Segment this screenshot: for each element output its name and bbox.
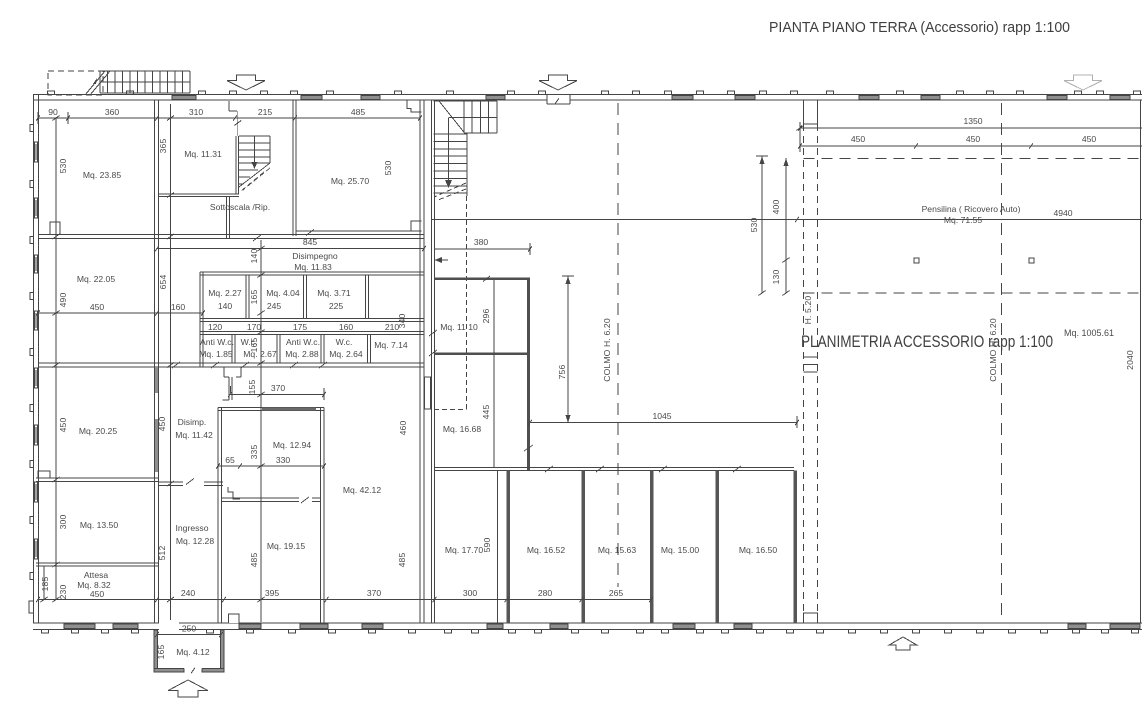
svg-text:170: 170 (247, 322, 262, 332)
svg-text:300: 300 (58, 515, 68, 530)
svg-text:225: 225 (329, 301, 344, 311)
svg-text:Mq. 19.15: Mq. 19.15 (267, 541, 305, 551)
svg-text:Anti W.c.: Anti W.c. (200, 337, 234, 347)
svg-text:310: 310 (189, 107, 204, 117)
svg-text:90: 90 (48, 107, 58, 117)
svg-text:450: 450 (90, 589, 105, 599)
svg-text:230: 230 (58, 585, 68, 600)
svg-text:165: 165 (249, 290, 259, 305)
svg-text:Sottoscala /Rip.: Sottoscala /Rip. (210, 202, 270, 212)
svg-text:Mq. 11.31: Mq. 11.31 (184, 149, 222, 159)
svg-text:380: 380 (474, 237, 489, 247)
svg-text:Disimpegno: Disimpegno (292, 251, 338, 261)
svg-text:Mq. 2.67: Mq. 2.67 (243, 349, 277, 359)
svg-text:Disimp.: Disimp. (178, 417, 207, 427)
svg-text:530: 530 (383, 161, 393, 176)
svg-text:395: 395 (265, 588, 280, 598)
svg-text:756: 756 (557, 365, 567, 380)
svg-text:2040: 2040 (1125, 350, 1135, 370)
svg-text:120: 120 (208, 322, 223, 332)
svg-text:280: 280 (538, 588, 553, 598)
svg-text:Anti W.c.: Anti W.c. (286, 337, 320, 347)
svg-text:Mq. 11.83: Mq. 11.83 (294, 262, 332, 272)
svg-text:530: 530 (749, 218, 759, 233)
svg-text:450: 450 (1082, 134, 1097, 144)
svg-text:4940: 4940 (1053, 208, 1072, 218)
svg-text:Mq. 15.00: Mq. 15.00 (661, 545, 699, 555)
svg-text:240: 240 (181, 588, 196, 598)
svg-text:Attesa: Attesa (84, 570, 109, 580)
svg-text:Mq. 16.52: Mq. 16.52 (527, 545, 565, 555)
svg-text:330: 330 (276, 455, 291, 465)
svg-text:845: 845 (303, 237, 318, 247)
svg-text:450: 450 (851, 134, 866, 144)
svg-text:Mq. 71.55: Mq. 71.55 (944, 215, 982, 225)
svg-text:Mq. 2.88: Mq. 2.88 (285, 349, 319, 359)
svg-text:Mq. 1.85: Mq. 1.85 (199, 349, 233, 359)
svg-text:Pensilina ( Ricovero Auto): Pensilina ( Ricovero Auto) (922, 204, 1021, 214)
svg-text:450: 450 (157, 417, 167, 432)
svg-text:360: 360 (105, 107, 120, 117)
svg-text:Mq. 11.42: Mq. 11.42 (175, 430, 213, 440)
svg-text:Mq. 16.68: Mq. 16.68 (443, 424, 481, 434)
svg-text:445: 445 (481, 405, 491, 420)
svg-text:Mq. 16.50: Mq. 16.50 (739, 545, 777, 555)
svg-text:450: 450 (966, 134, 981, 144)
svg-text:250: 250 (182, 624, 197, 634)
svg-text:W.c.: W.c. (336, 337, 353, 347)
svg-text:Mq. 8.32: Mq. 8.32 (77, 580, 111, 590)
svg-text:450: 450 (90, 302, 105, 312)
svg-text:COLMO H. 6.20: COLMO H. 6.20 (602, 318, 612, 382)
svg-text:140: 140 (249, 249, 259, 264)
svg-text:155: 155 (247, 380, 257, 395)
svg-text:Mq. 1005.61: Mq. 1005.61 (1064, 328, 1114, 338)
svg-text:Mq. 20.25: Mq. 20.25 (79, 426, 117, 436)
svg-text:65: 65 (225, 455, 235, 465)
svg-text:140: 140 (218, 301, 233, 311)
svg-text:370: 370 (271, 383, 286, 393)
svg-text:Mq. 11 10: Mq. 11 10 (440, 322, 478, 332)
svg-text:490: 490 (58, 293, 68, 308)
svg-text:512: 512 (157, 546, 167, 561)
svg-text:400: 400 (771, 200, 781, 215)
svg-text:215: 215 (258, 107, 273, 117)
svg-text:590: 590 (482, 538, 492, 553)
svg-text:H. 5.20: H. 5.20 (803, 296, 813, 325)
svg-text:175: 175 (293, 322, 308, 332)
svg-text:265: 265 (609, 588, 624, 598)
svg-text:Mq. 4.12: Mq. 4.12 (176, 647, 210, 657)
svg-text:W.c.: W.c. (241, 337, 258, 347)
svg-text:PIANTA PIANO TERRA (Accessorio: PIANTA PIANO TERRA (Accessorio) rapp 1:1… (769, 20, 1070, 36)
svg-text:185: 185 (40, 577, 50, 592)
svg-text:485: 485 (249, 553, 259, 568)
svg-text:Mq. 15.63: Mq. 15.63 (598, 545, 636, 555)
svg-text:1350: 1350 (963, 116, 982, 126)
svg-text:Mq. 12.94: Mq. 12.94 (273, 440, 311, 450)
svg-text:210: 210 (385, 322, 400, 332)
svg-text:Mq. 23.85: Mq. 23.85 (83, 170, 121, 180)
svg-text:Mq. 2.64: Mq. 2.64 (329, 349, 363, 359)
svg-text:Mq. 12.28: Mq. 12.28 (176, 536, 214, 546)
svg-text:335: 335 (249, 445, 259, 460)
svg-text:460: 460 (398, 421, 408, 436)
svg-text:Mq. 42.12: Mq. 42.12 (343, 485, 381, 495)
svg-text:Mq. 4.04: Mq. 4.04 (266, 288, 300, 298)
svg-text:485: 485 (397, 553, 407, 568)
svg-text:300: 300 (463, 588, 478, 598)
svg-text:485: 485 (351, 107, 366, 117)
svg-text:530: 530 (58, 159, 68, 174)
svg-text:296: 296 (481, 309, 491, 324)
svg-text:654: 654 (158, 275, 168, 290)
svg-text:Mq. 3.71: Mq. 3.71 (317, 288, 351, 298)
svg-text:PLANIMETRIA ACCESSORIO rapp 1: PLANIMETRIA ACCESSORIO rapp 1:100 (801, 333, 1053, 351)
svg-text:450: 450 (58, 418, 68, 433)
svg-text:Mq. 22.05: Mq. 22.05 (77, 274, 115, 284)
svg-text:Ingresso: Ingresso (176, 523, 209, 533)
svg-text:365: 365 (158, 139, 168, 154)
svg-text:130: 130 (771, 270, 781, 285)
svg-text:160: 160 (171, 302, 186, 312)
svg-text:160: 160 (339, 322, 354, 332)
svg-text:165: 165 (156, 645, 166, 660)
svg-text:Mq. 13.50: Mq. 13.50 (80, 520, 118, 530)
svg-text:Mq. 2.27: Mq. 2.27 (208, 288, 242, 298)
svg-text:370: 370 (367, 588, 382, 598)
svg-text:Mq. 7.14: Mq. 7.14 (374, 340, 408, 350)
svg-text:Mq. 25.70: Mq. 25.70 (331, 176, 369, 186)
svg-text:1045: 1045 (652, 411, 671, 421)
svg-text:Mq. 17.70: Mq. 17.70 (445, 545, 483, 555)
svg-text:245: 245 (267, 301, 282, 311)
